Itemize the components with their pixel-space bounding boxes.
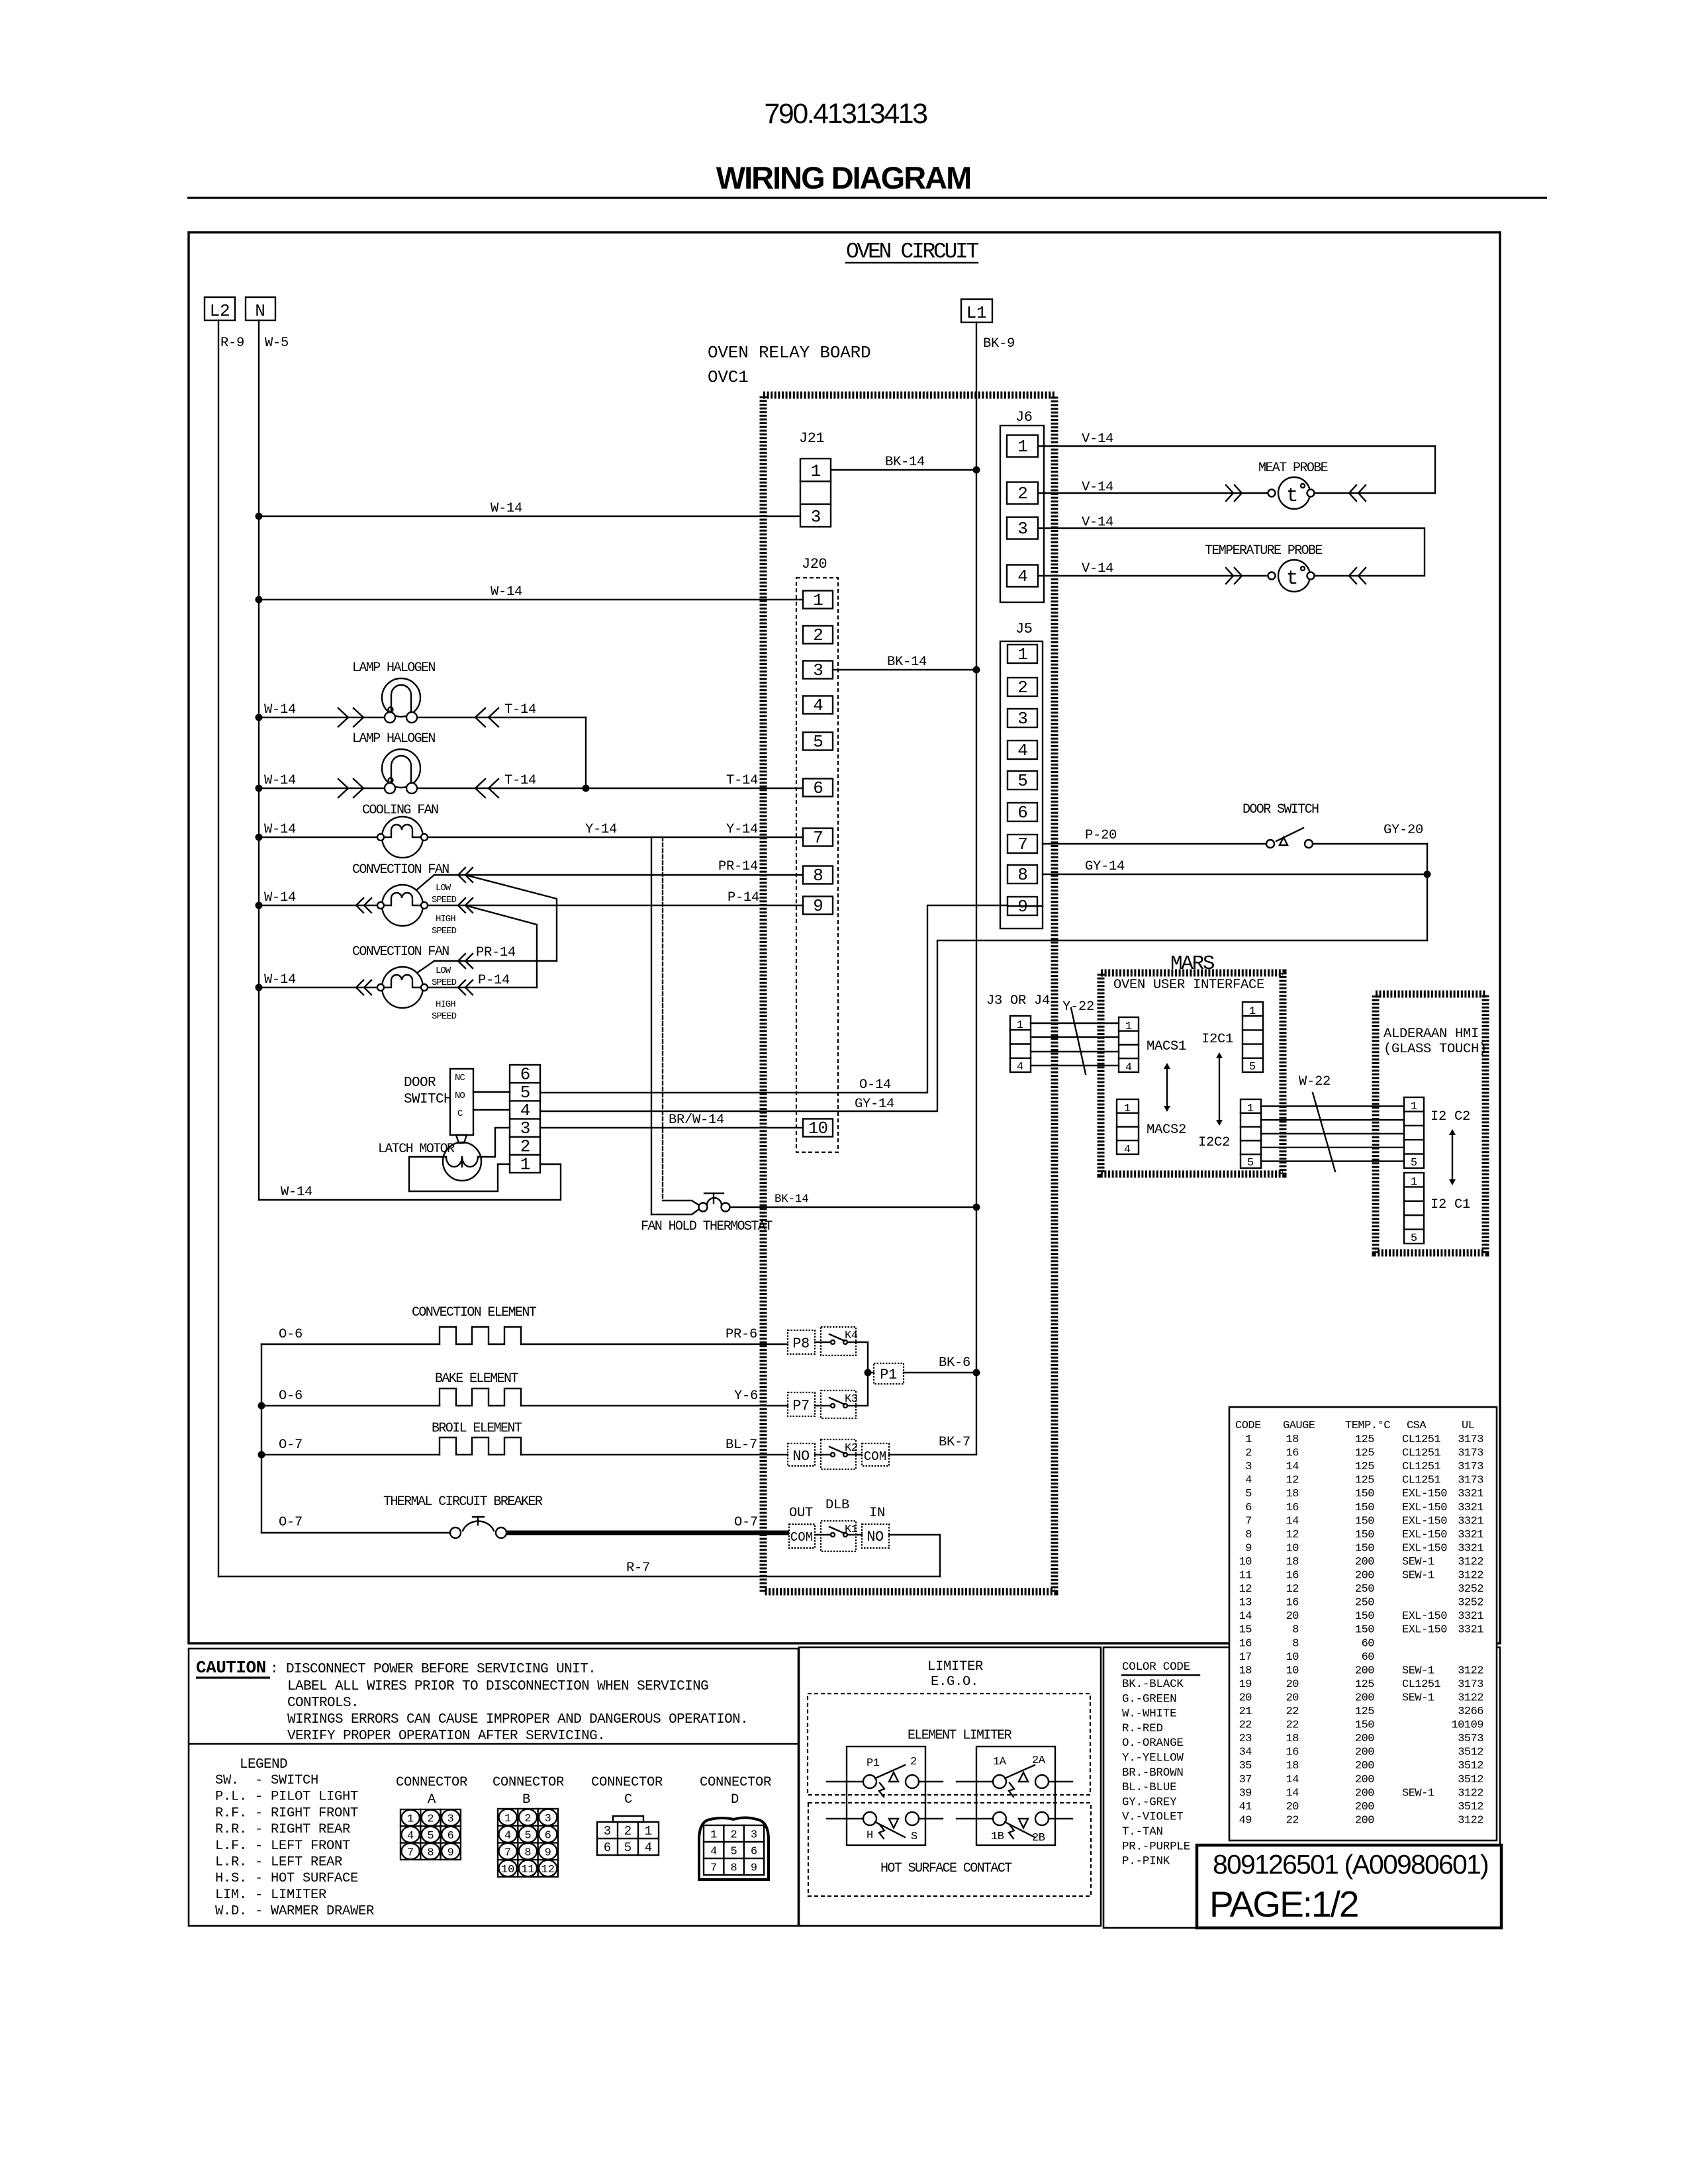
svg-text:L2: L2 xyxy=(210,301,230,321)
svg-text:SEW-1: SEW-1 xyxy=(1402,1692,1434,1704)
svg-text:150: 150 xyxy=(1355,1624,1374,1637)
svg-text:150: 150 xyxy=(1355,1719,1374,1732)
svg-text:EXL-150: EXL-150 xyxy=(1402,1624,1447,1637)
svg-text:8: 8 xyxy=(1292,1637,1299,1650)
svg-text:PAGE:1/2: PAGE:1/2 xyxy=(1209,1884,1358,1925)
svg-text:3173: 3173 xyxy=(1458,1461,1483,1473)
svg-text:OVC1: OVC1 xyxy=(708,367,749,387)
svg-text:6: 6 xyxy=(604,1841,611,1855)
svg-text:BK-9: BK-9 xyxy=(983,336,1015,351)
svg-text:OVEN RELAY BOARD: OVEN RELAY BOARD xyxy=(708,343,870,363)
svg-text:250: 250 xyxy=(1355,1597,1374,1610)
svg-text:GY-14: GY-14 xyxy=(855,1097,894,1112)
svg-text:DOOR SWITCH: DOOR SWITCH xyxy=(1243,802,1319,817)
svg-text:7: 7 xyxy=(1017,835,1027,854)
svg-text:R.F.: R.F. xyxy=(215,1805,247,1821)
svg-text:OUT: OUT xyxy=(789,1506,813,1521)
svg-text:200: 200 xyxy=(1355,1664,1374,1677)
svg-text:W-14: W-14 xyxy=(264,972,296,987)
svg-text:Y-14: Y-14 xyxy=(726,822,758,837)
svg-text:16: 16 xyxy=(1286,1747,1299,1759)
svg-text:PR-14: PR-14 xyxy=(718,859,758,874)
svg-text:EXL-150: EXL-150 xyxy=(1402,1542,1447,1555)
svg-text:6: 6 xyxy=(1017,803,1027,823)
svg-text:PR-14: PR-14 xyxy=(476,945,516,960)
svg-text:4: 4 xyxy=(504,1830,511,1843)
svg-text:200: 200 xyxy=(1355,1801,1374,1813)
svg-text:EXL-150: EXL-150 xyxy=(1402,1515,1447,1527)
svg-text:J20: J20 xyxy=(802,556,827,572)
svg-text:W-14: W-14 xyxy=(264,773,296,788)
svg-text:5: 5 xyxy=(1411,1232,1417,1245)
svg-text:250: 250 xyxy=(1355,1583,1374,1596)
svg-text:LOW: LOW xyxy=(436,883,451,893)
svg-text:CONTROLS.: CONTROLS. xyxy=(287,1696,359,1711)
svg-text:22: 22 xyxy=(1239,1719,1252,1732)
svg-text:5: 5 xyxy=(1249,1061,1256,1073)
svg-text:5: 5 xyxy=(520,1083,530,1103)
svg-text:BK-14: BK-14 xyxy=(887,655,927,670)
svg-text:LATCH MOTOR: LATCH MOTOR xyxy=(378,1142,455,1157)
svg-text:2: 2 xyxy=(910,1756,917,1768)
svg-text:200: 200 xyxy=(1355,1774,1374,1786)
svg-text:39: 39 xyxy=(1239,1787,1252,1799)
svg-text:BK.-BLACK: BK.-BLACK xyxy=(1122,1678,1184,1691)
svg-text:1: 1 xyxy=(813,590,823,610)
svg-text:20: 20 xyxy=(1286,1678,1299,1691)
svg-text:6: 6 xyxy=(545,1830,551,1843)
svg-text:3122: 3122 xyxy=(1458,1570,1483,1582)
svg-text:CONNECTOR: CONNECTOR xyxy=(700,1775,771,1790)
svg-text:L1: L1 xyxy=(966,303,987,323)
svg-text:CL1251: CL1251 xyxy=(1402,1433,1441,1446)
svg-text:7: 7 xyxy=(710,1862,717,1875)
svg-text:3573: 3573 xyxy=(1458,1733,1483,1745)
svg-text:3321: 3321 xyxy=(1458,1529,1483,1541)
svg-text:GY-14: GY-14 xyxy=(1085,859,1125,874)
svg-text:3321: 3321 xyxy=(1458,1502,1483,1514)
svg-text:150: 150 xyxy=(1355,1488,1374,1500)
svg-text:CONNECTOR: CONNECTOR xyxy=(591,1775,663,1790)
svg-text:1B: 1B xyxy=(991,1831,1004,1843)
svg-text:2: 2 xyxy=(1017,484,1027,504)
svg-text:3173: 3173 xyxy=(1458,1447,1483,1460)
svg-text:CONVECTION ELEMENT: CONVECTION ELEMENT xyxy=(412,1305,537,1320)
svg-text:J6: J6 xyxy=(1015,409,1032,426)
svg-text:1: 1 xyxy=(1125,1021,1132,1033)
svg-text:UL: UL xyxy=(1462,1420,1475,1432)
svg-text:9: 9 xyxy=(447,1846,454,1859)
svg-text:MACS1: MACS1 xyxy=(1147,1039,1186,1054)
svg-text:EXL-150: EXL-150 xyxy=(1402,1502,1447,1514)
svg-text:SPEED: SPEED xyxy=(432,1011,457,1022)
svg-text:22: 22 xyxy=(1286,1706,1299,1718)
svg-text:A: A xyxy=(428,1792,436,1807)
svg-text:2B: 2B xyxy=(1032,1832,1045,1844)
svg-text:W-14: W-14 xyxy=(264,890,296,905)
svg-text:- RIGHT REAR: - RIGHT REAR xyxy=(255,1822,350,1837)
svg-text:P-14: P-14 xyxy=(478,973,510,988)
svg-text:7: 7 xyxy=(813,828,823,848)
svg-text:5: 5 xyxy=(624,1841,632,1855)
svg-text:CONNECTOR: CONNECTOR xyxy=(492,1775,564,1790)
svg-text:16: 16 xyxy=(1286,1597,1299,1610)
svg-text:125: 125 xyxy=(1355,1475,1374,1487)
svg-text:NC: NC xyxy=(455,1073,465,1083)
svg-text:IN: IN xyxy=(869,1506,885,1521)
svg-text:J3 OR J4: J3 OR J4 xyxy=(986,993,1050,1009)
svg-text:2: 2 xyxy=(624,1824,632,1839)
svg-text:125: 125 xyxy=(1355,1678,1374,1691)
svg-text:D: D xyxy=(731,1792,739,1807)
svg-text:809126501 (A00980601): 809126501 (A00980601) xyxy=(1213,1849,1488,1880)
svg-text:7: 7 xyxy=(407,1846,414,1859)
svg-text:2: 2 xyxy=(1017,678,1027,698)
svg-text:PR-6: PR-6 xyxy=(726,1327,757,1342)
svg-text:OVEN USER INTERFACE: OVEN USER INTERFACE xyxy=(1113,978,1264,993)
svg-text:11: 11 xyxy=(1239,1570,1252,1582)
svg-text:V-14: V-14 xyxy=(1082,432,1113,447)
svg-text:1: 1 xyxy=(710,1829,717,1842)
svg-text:3: 3 xyxy=(751,1829,757,1842)
svg-text:THERMAL CIRCUIT BREAKER: THERMAL CIRCUIT BREAKER xyxy=(383,1494,543,1510)
svg-text:CODE: CODE xyxy=(1235,1420,1261,1432)
svg-text:3512: 3512 xyxy=(1458,1801,1483,1813)
svg-text:1: 1 xyxy=(1017,1019,1023,1032)
svg-text:20: 20 xyxy=(1286,1692,1299,1704)
svg-text:60: 60 xyxy=(1362,1651,1375,1664)
svg-text:L.R.: L.R. xyxy=(215,1855,247,1870)
svg-text:4: 4 xyxy=(1017,1061,1023,1073)
svg-text:3122: 3122 xyxy=(1458,1556,1483,1569)
svg-text:COOLING FAN: COOLING FAN xyxy=(362,803,438,818)
svg-text:1: 1 xyxy=(1247,1103,1254,1115)
svg-text:SPEED: SPEED xyxy=(432,895,457,905)
svg-text:ALDERAAN HMI: ALDERAAN HMI xyxy=(1383,1026,1479,1042)
svg-text:: DISCONNECT POWER BEFORE SERV: : DISCONNECT POWER BEFORE SERVICING UNIT… xyxy=(270,1662,596,1677)
svg-text:20: 20 xyxy=(1239,1692,1252,1704)
svg-text:790.41313413: 790.41313413 xyxy=(764,98,927,130)
svg-text:- PILOT LIGHT: - PILOT LIGHT xyxy=(255,1790,358,1805)
svg-text:FAN HOLD THERMOSTAT: FAN HOLD THERMOSTAT xyxy=(641,1219,773,1234)
svg-text:J5: J5 xyxy=(1015,621,1032,637)
svg-text:W.-WHITE: W.-WHITE xyxy=(1122,1707,1176,1721)
svg-text:LEGEND: LEGEND xyxy=(240,1757,287,1772)
svg-text:19: 19 xyxy=(1239,1678,1252,1691)
svg-text:4: 4 xyxy=(813,696,823,715)
svg-text:3321: 3321 xyxy=(1458,1542,1483,1555)
svg-text:6: 6 xyxy=(447,1830,454,1843)
svg-text:C: C xyxy=(624,1792,632,1807)
svg-text:150: 150 xyxy=(1355,1610,1374,1623)
svg-text:BR.-BROWN: BR.-BROWN xyxy=(1122,1766,1184,1780)
svg-text:Y-22: Y-22 xyxy=(1062,999,1094,1015)
svg-text:8: 8 xyxy=(1245,1529,1252,1541)
svg-text:SEW-1: SEW-1 xyxy=(1402,1787,1434,1799)
svg-text:3122: 3122 xyxy=(1458,1787,1483,1799)
svg-text:150: 150 xyxy=(1355,1515,1374,1527)
svg-text:20: 20 xyxy=(1286,1610,1299,1623)
svg-text:NO: NO xyxy=(792,1448,810,1465)
svg-text:BK-6: BK-6 xyxy=(939,1355,970,1371)
svg-text:8: 8 xyxy=(730,1862,737,1875)
svg-text:200: 200 xyxy=(1355,1570,1374,1582)
svg-text:SWITCH: SWITCH xyxy=(404,1092,451,1107)
svg-text:3: 3 xyxy=(1017,709,1027,729)
svg-text:41: 41 xyxy=(1239,1801,1252,1813)
svg-text:16: 16 xyxy=(1286,1447,1299,1460)
svg-text:3321: 3321 xyxy=(1458,1610,1483,1623)
svg-text:14: 14 xyxy=(1286,1787,1299,1799)
svg-text:60: 60 xyxy=(1362,1637,1375,1650)
svg-text:5: 5 xyxy=(1411,1157,1417,1169)
svg-text:EXL-150: EXL-150 xyxy=(1402,1610,1447,1623)
svg-text:3: 3 xyxy=(447,1813,454,1826)
svg-text:L.F.: L.F. xyxy=(215,1839,247,1854)
svg-text:18: 18 xyxy=(1286,1733,1299,1745)
svg-text:11: 11 xyxy=(521,1864,534,1876)
svg-text:200: 200 xyxy=(1355,1814,1374,1827)
svg-text:W-5: W-5 xyxy=(265,336,289,351)
svg-text:4: 4 xyxy=(407,1830,414,1843)
svg-text:G.-GREEN: G.-GREEN xyxy=(1122,1692,1176,1706)
svg-text:6: 6 xyxy=(751,1846,757,1858)
svg-text:5: 5 xyxy=(813,732,823,752)
svg-text:7: 7 xyxy=(504,1846,511,1859)
svg-text:9: 9 xyxy=(545,1846,551,1859)
svg-text:- LEFT FRONT: - LEFT FRONT xyxy=(255,1839,350,1854)
svg-text:O-7: O-7 xyxy=(279,1515,303,1530)
svg-text:3321: 3321 xyxy=(1458,1624,1483,1637)
svg-text:2: 2 xyxy=(524,1813,531,1825)
svg-text:LABEL ALL WIRES PRIOR TO DISCO: LABEL ALL WIRES PRIOR TO DISCONNECTION W… xyxy=(287,1679,708,1694)
svg-text:37: 37 xyxy=(1239,1774,1252,1786)
svg-text:P-20: P-20 xyxy=(1085,828,1117,843)
svg-text:18: 18 xyxy=(1239,1664,1252,1677)
svg-text:4: 4 xyxy=(1125,1062,1132,1074)
svg-text:1: 1 xyxy=(407,1813,414,1826)
svg-text:125: 125 xyxy=(1355,1461,1374,1473)
svg-text:14: 14 xyxy=(1286,1515,1299,1527)
svg-text:10: 10 xyxy=(1239,1556,1252,1569)
svg-text:HIGH: HIGH xyxy=(436,914,455,925)
svg-text:8: 8 xyxy=(427,1846,434,1859)
svg-text:150: 150 xyxy=(1355,1502,1374,1514)
svg-text:5: 5 xyxy=(1247,1157,1254,1169)
svg-text:BK-14: BK-14 xyxy=(774,1193,809,1206)
svg-text:- SWITCH: - SWITCH xyxy=(255,1773,318,1788)
svg-text:20: 20 xyxy=(1286,1801,1299,1813)
svg-text:49: 49 xyxy=(1239,1814,1252,1827)
svg-text:MARS: MARS xyxy=(1170,952,1215,976)
svg-text:PR.-PURPLE: PR.-PURPLE xyxy=(1122,1840,1190,1853)
svg-text:14: 14 xyxy=(1286,1774,1299,1786)
svg-text:3122: 3122 xyxy=(1458,1692,1483,1704)
svg-text:SPEED: SPEED xyxy=(432,978,457,988)
svg-text:17: 17 xyxy=(1239,1651,1252,1664)
svg-text:3321: 3321 xyxy=(1458,1515,1483,1527)
svg-text:9: 9 xyxy=(1245,1542,1252,1555)
svg-text:LAMP HALOGEN: LAMP HALOGEN xyxy=(352,660,435,676)
svg-text:5: 5 xyxy=(427,1830,434,1843)
svg-text:16: 16 xyxy=(1286,1570,1299,1582)
svg-text:P.L.: P.L. xyxy=(215,1790,247,1805)
svg-text:1: 1 xyxy=(811,461,821,481)
svg-text:WIRING DIAGRAM: WIRING DIAGRAM xyxy=(716,160,971,195)
svg-text:5: 5 xyxy=(730,1846,737,1858)
svg-text:8: 8 xyxy=(524,1846,531,1859)
svg-text:O.-ORANGE: O.-ORANGE xyxy=(1122,1737,1184,1750)
svg-text:P7: P7 xyxy=(792,1398,809,1414)
svg-text:3: 3 xyxy=(1017,519,1027,539)
svg-text:NO: NO xyxy=(867,1529,884,1545)
svg-text:3173: 3173 xyxy=(1458,1433,1483,1446)
svg-text:BK-14: BK-14 xyxy=(885,455,925,470)
svg-text:23: 23 xyxy=(1239,1733,1252,1745)
svg-text:2A: 2A xyxy=(1032,1754,1046,1767)
svg-text:3321: 3321 xyxy=(1458,1488,1483,1500)
svg-text:1A: 1A xyxy=(993,1756,1007,1768)
svg-text:CL1251: CL1251 xyxy=(1402,1447,1441,1460)
svg-text:200: 200 xyxy=(1355,1733,1374,1745)
svg-text:- RIGHT FRONT: - RIGHT FRONT xyxy=(255,1805,358,1821)
svg-text:1: 1 xyxy=(1411,1101,1417,1113)
svg-text:P8: P8 xyxy=(792,1336,809,1352)
svg-text:3266: 3266 xyxy=(1458,1706,1483,1718)
svg-text:BAKE ELEMENT: BAKE ELEMENT xyxy=(435,1371,518,1387)
svg-text:4: 4 xyxy=(1245,1475,1252,1487)
svg-text:SW.: SW. xyxy=(215,1773,239,1788)
svg-text:O-6: O-6 xyxy=(279,1327,303,1342)
svg-text:- WARMER DRAWER: - WARMER DRAWER xyxy=(255,1904,374,1919)
svg-text:5: 5 xyxy=(524,1830,531,1843)
svg-text:R-7: R-7 xyxy=(626,1561,650,1576)
svg-text:4: 4 xyxy=(710,1846,717,1858)
svg-text:COM: COM xyxy=(864,1449,886,1464)
svg-text:6: 6 xyxy=(1245,1502,1252,1514)
svg-text:W.D.: W.D. xyxy=(215,1904,247,1919)
svg-text:1: 1 xyxy=(1017,437,1027,457)
svg-text:LAMP HALOGEN: LAMP HALOGEN xyxy=(352,731,435,747)
svg-text:Y.-YELLOW: Y.-YELLOW xyxy=(1122,1752,1184,1765)
svg-text:T-14: T-14 xyxy=(504,702,536,717)
svg-text:1: 1 xyxy=(1124,1103,1131,1115)
svg-text:V.-VIOLET: V.-VIOLET xyxy=(1122,1811,1184,1824)
svg-text:200: 200 xyxy=(1355,1692,1374,1704)
svg-text:LOW: LOW xyxy=(436,966,451,976)
svg-text:3252: 3252 xyxy=(1458,1597,1483,1610)
svg-text:8: 8 xyxy=(813,866,823,886)
svg-text:13: 13 xyxy=(1239,1597,1252,1610)
svg-text:SEW-1: SEW-1 xyxy=(1402,1664,1434,1677)
svg-text:- HOT SURFACE: - HOT SURFACE xyxy=(255,1871,358,1886)
svg-text:R-9: R-9 xyxy=(220,336,244,351)
svg-text:1: 1 xyxy=(504,1813,511,1825)
svg-text:CL1251: CL1251 xyxy=(1402,1475,1441,1487)
svg-text:15: 15 xyxy=(1239,1624,1252,1637)
svg-text:- LEFT REAR: - LEFT REAR xyxy=(255,1855,342,1870)
svg-text:22: 22 xyxy=(1286,1814,1299,1827)
svg-text:21: 21 xyxy=(1239,1706,1252,1718)
svg-text:B: B xyxy=(522,1792,530,1807)
svg-text:150: 150 xyxy=(1355,1542,1374,1555)
svg-text:200: 200 xyxy=(1355,1787,1374,1799)
svg-text:HIGH: HIGH xyxy=(436,999,455,1010)
svg-text:T.-TAN: T.-TAN xyxy=(1122,1825,1163,1839)
svg-text:125: 125 xyxy=(1355,1447,1374,1460)
svg-text:10: 10 xyxy=(1286,1542,1299,1555)
svg-text:DOOR: DOOR xyxy=(404,1075,436,1091)
svg-text:2: 2 xyxy=(730,1829,737,1842)
svg-text:- LIMITER: - LIMITER xyxy=(255,1888,326,1903)
svg-text:12: 12 xyxy=(1239,1583,1252,1596)
svg-text:1: 1 xyxy=(1017,645,1027,664)
svg-text:3173: 3173 xyxy=(1458,1678,1483,1691)
svg-text:(GLASS TOUCH): (GLASS TOUCH) xyxy=(1383,1042,1487,1057)
svg-text:35: 35 xyxy=(1239,1760,1252,1772)
svg-text:COM: COM xyxy=(790,1530,813,1545)
svg-text:3: 3 xyxy=(811,507,821,527)
svg-text:GY-20: GY-20 xyxy=(1383,823,1423,838)
svg-text:O-7: O-7 xyxy=(279,1437,303,1453)
svg-text:10109: 10109 xyxy=(1451,1719,1483,1732)
svg-text:I2 C1: I2 C1 xyxy=(1430,1197,1470,1212)
svg-text:3252: 3252 xyxy=(1458,1583,1483,1596)
svg-text:SPEED: SPEED xyxy=(432,926,457,936)
svg-text:9: 9 xyxy=(813,896,823,916)
svg-text:200: 200 xyxy=(1355,1747,1374,1759)
svg-text:J21: J21 xyxy=(799,430,824,447)
svg-text:TEMP.°C: TEMP.°C xyxy=(1345,1420,1390,1432)
svg-text:P1: P1 xyxy=(867,1757,880,1770)
svg-text:CL1251: CL1251 xyxy=(1402,1461,1441,1473)
svg-text:t: t xyxy=(1286,567,1297,590)
svg-text:BR/W-14: BR/W-14 xyxy=(669,1113,724,1128)
svg-text:T-14: T-14 xyxy=(726,773,758,788)
svg-text:CONNECTOR: CONNECTOR xyxy=(396,1775,467,1790)
svg-text:10: 10 xyxy=(808,1118,827,1138)
svg-text:9: 9 xyxy=(751,1862,757,1875)
svg-text:BROIL ELEMENT: BROIL ELEMENT xyxy=(432,1421,522,1436)
svg-text:125: 125 xyxy=(1355,1706,1374,1718)
svg-text:V-14: V-14 xyxy=(1082,561,1113,576)
svg-text:3512: 3512 xyxy=(1458,1747,1483,1759)
svg-text:5: 5 xyxy=(1245,1488,1252,1500)
svg-text:Y-14: Y-14 xyxy=(585,822,617,837)
svg-text:8: 8 xyxy=(1292,1624,1299,1637)
svg-text:NO: NO xyxy=(455,1091,465,1101)
svg-text:150: 150 xyxy=(1355,1529,1374,1541)
svg-text:CL1251: CL1251 xyxy=(1402,1678,1441,1691)
svg-text:1: 1 xyxy=(520,1155,530,1175)
svg-text:8: 8 xyxy=(1017,865,1027,885)
svg-text:3: 3 xyxy=(813,660,823,680)
svg-text:2: 2 xyxy=(520,1136,530,1156)
svg-text:10: 10 xyxy=(1286,1651,1299,1664)
svg-text:22: 22 xyxy=(1286,1719,1299,1732)
svg-text:1: 1 xyxy=(1411,1176,1417,1189)
svg-text:t: t xyxy=(1286,484,1297,508)
svg-text:3: 3 xyxy=(520,1118,530,1138)
svg-text:3512: 3512 xyxy=(1458,1760,1483,1772)
svg-text:4: 4 xyxy=(645,1841,652,1855)
svg-text:H.S.: H.S. xyxy=(215,1871,247,1886)
svg-text:2: 2 xyxy=(813,625,823,645)
svg-text:P-14: P-14 xyxy=(727,890,759,905)
svg-text:T-14: T-14 xyxy=(504,773,536,788)
svg-text:1: 1 xyxy=(1245,1433,1252,1446)
svg-text:Y-6: Y-6 xyxy=(734,1388,758,1404)
